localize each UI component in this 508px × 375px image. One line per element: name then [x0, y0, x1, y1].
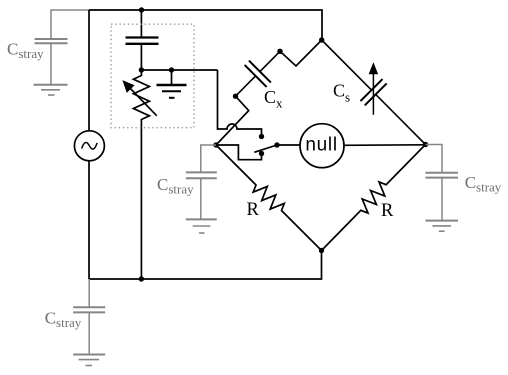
wire: left vertical below source — [88, 161, 90, 279]
node: bridge top — [319, 37, 324, 42]
wire: pole to null detector — [277, 144, 300, 146]
svg-text:null: null — [305, 134, 337, 155]
wire: switch lower throw path — [216, 145, 262, 160]
wire: capacitor to junction — [140, 44, 142, 70]
wire: null to right node — [344, 144, 426, 147]
capacitor Cstray top-left — [35, 39, 68, 43]
wire: right stray stem — [441, 178, 443, 220]
node: junction top wire / divider chain — [139, 7, 144, 12]
capacitor Cstray (bottom) — [73, 307, 105, 312]
node: switch pole — [274, 142, 279, 147]
wire: ground stem — [171, 70, 173, 85]
arrow of variable capacitor Cs — [369, 64, 377, 115]
node: Cx bottom terminal — [233, 94, 238, 99]
dotted enclosure box — [111, 24, 194, 128]
wire: Cx arm lower jog to left node — [216, 96, 249, 145]
wire: Cx arm upper jog — [280, 40, 322, 66]
wire: top-left stray wire (gray) — [51, 10, 89, 38]
wire: main top horizontal + down to bridge top node — [89, 10, 322, 40]
null detector — [300, 124, 344, 168]
capacitor Cstray (right) — [425, 173, 458, 178]
arrow of variable resistor — [123, 81, 157, 116]
wire: bottom horizontal and rise to bottom node — [89, 251, 322, 280]
node: bridge right — [423, 142, 428, 147]
capacitor C (inside dotted box) — [126, 38, 159, 44]
ground (right, gray) — [425, 221, 458, 232]
resistor: variable (potentiometer) zigzag — [133, 70, 149, 279]
node: bridge bottom — [319, 248, 324, 253]
node: bottom wire junction with divider — [139, 276, 144, 281]
resistor R (right arm) — [322, 145, 426, 251]
wire: left vertical above source — [88, 10, 90, 131]
node: switch lower throw — [259, 151, 264, 156]
capacitor Cx — [236, 51, 281, 96]
svg-text:R: R — [381, 201, 394, 221]
wire: bottom stray lower stem — [88, 312, 90, 354]
ground (inside dotted box) — [157, 85, 187, 98]
node: divider mid junction — [139, 67, 144, 72]
wire: bottom stray stem (gray) — [88, 279, 90, 307]
resistor R (left arm) — [216, 145, 322, 251]
switch lever — [254, 145, 277, 152]
wire: divider chain down from top wire — [140, 10, 142, 37]
wire: right stray tap (gray) — [426, 145, 443, 173]
wire: Wagner tap horizontal with hop — [218, 70, 262, 137]
capacitor Cstray (middle) — [186, 172, 217, 178]
svg-text:R: R — [247, 200, 260, 220]
node: Cx top terminal — [277, 49, 282, 54]
node: switch upper throw — [259, 134, 264, 139]
capacitor Cs (variable) arm — [322, 40, 426, 145]
wire: Cstray top-left lower stem — [50, 43, 52, 84]
wire: middle stray tap (gray) — [201, 145, 216, 172]
wire: junction to ground stub and right to switch feed — [141, 69, 217, 71]
node: ground tap junction — [169, 67, 174, 72]
ground (middle, gray) — [186, 219, 217, 233]
ground (bottom, gray) — [73, 355, 105, 366]
AC source — [74, 131, 104, 161]
ground (top-left, gray) — [34, 85, 68, 95]
wire: middle stray stem — [200, 178, 202, 219]
node: bridge left — [213, 142, 218, 147]
